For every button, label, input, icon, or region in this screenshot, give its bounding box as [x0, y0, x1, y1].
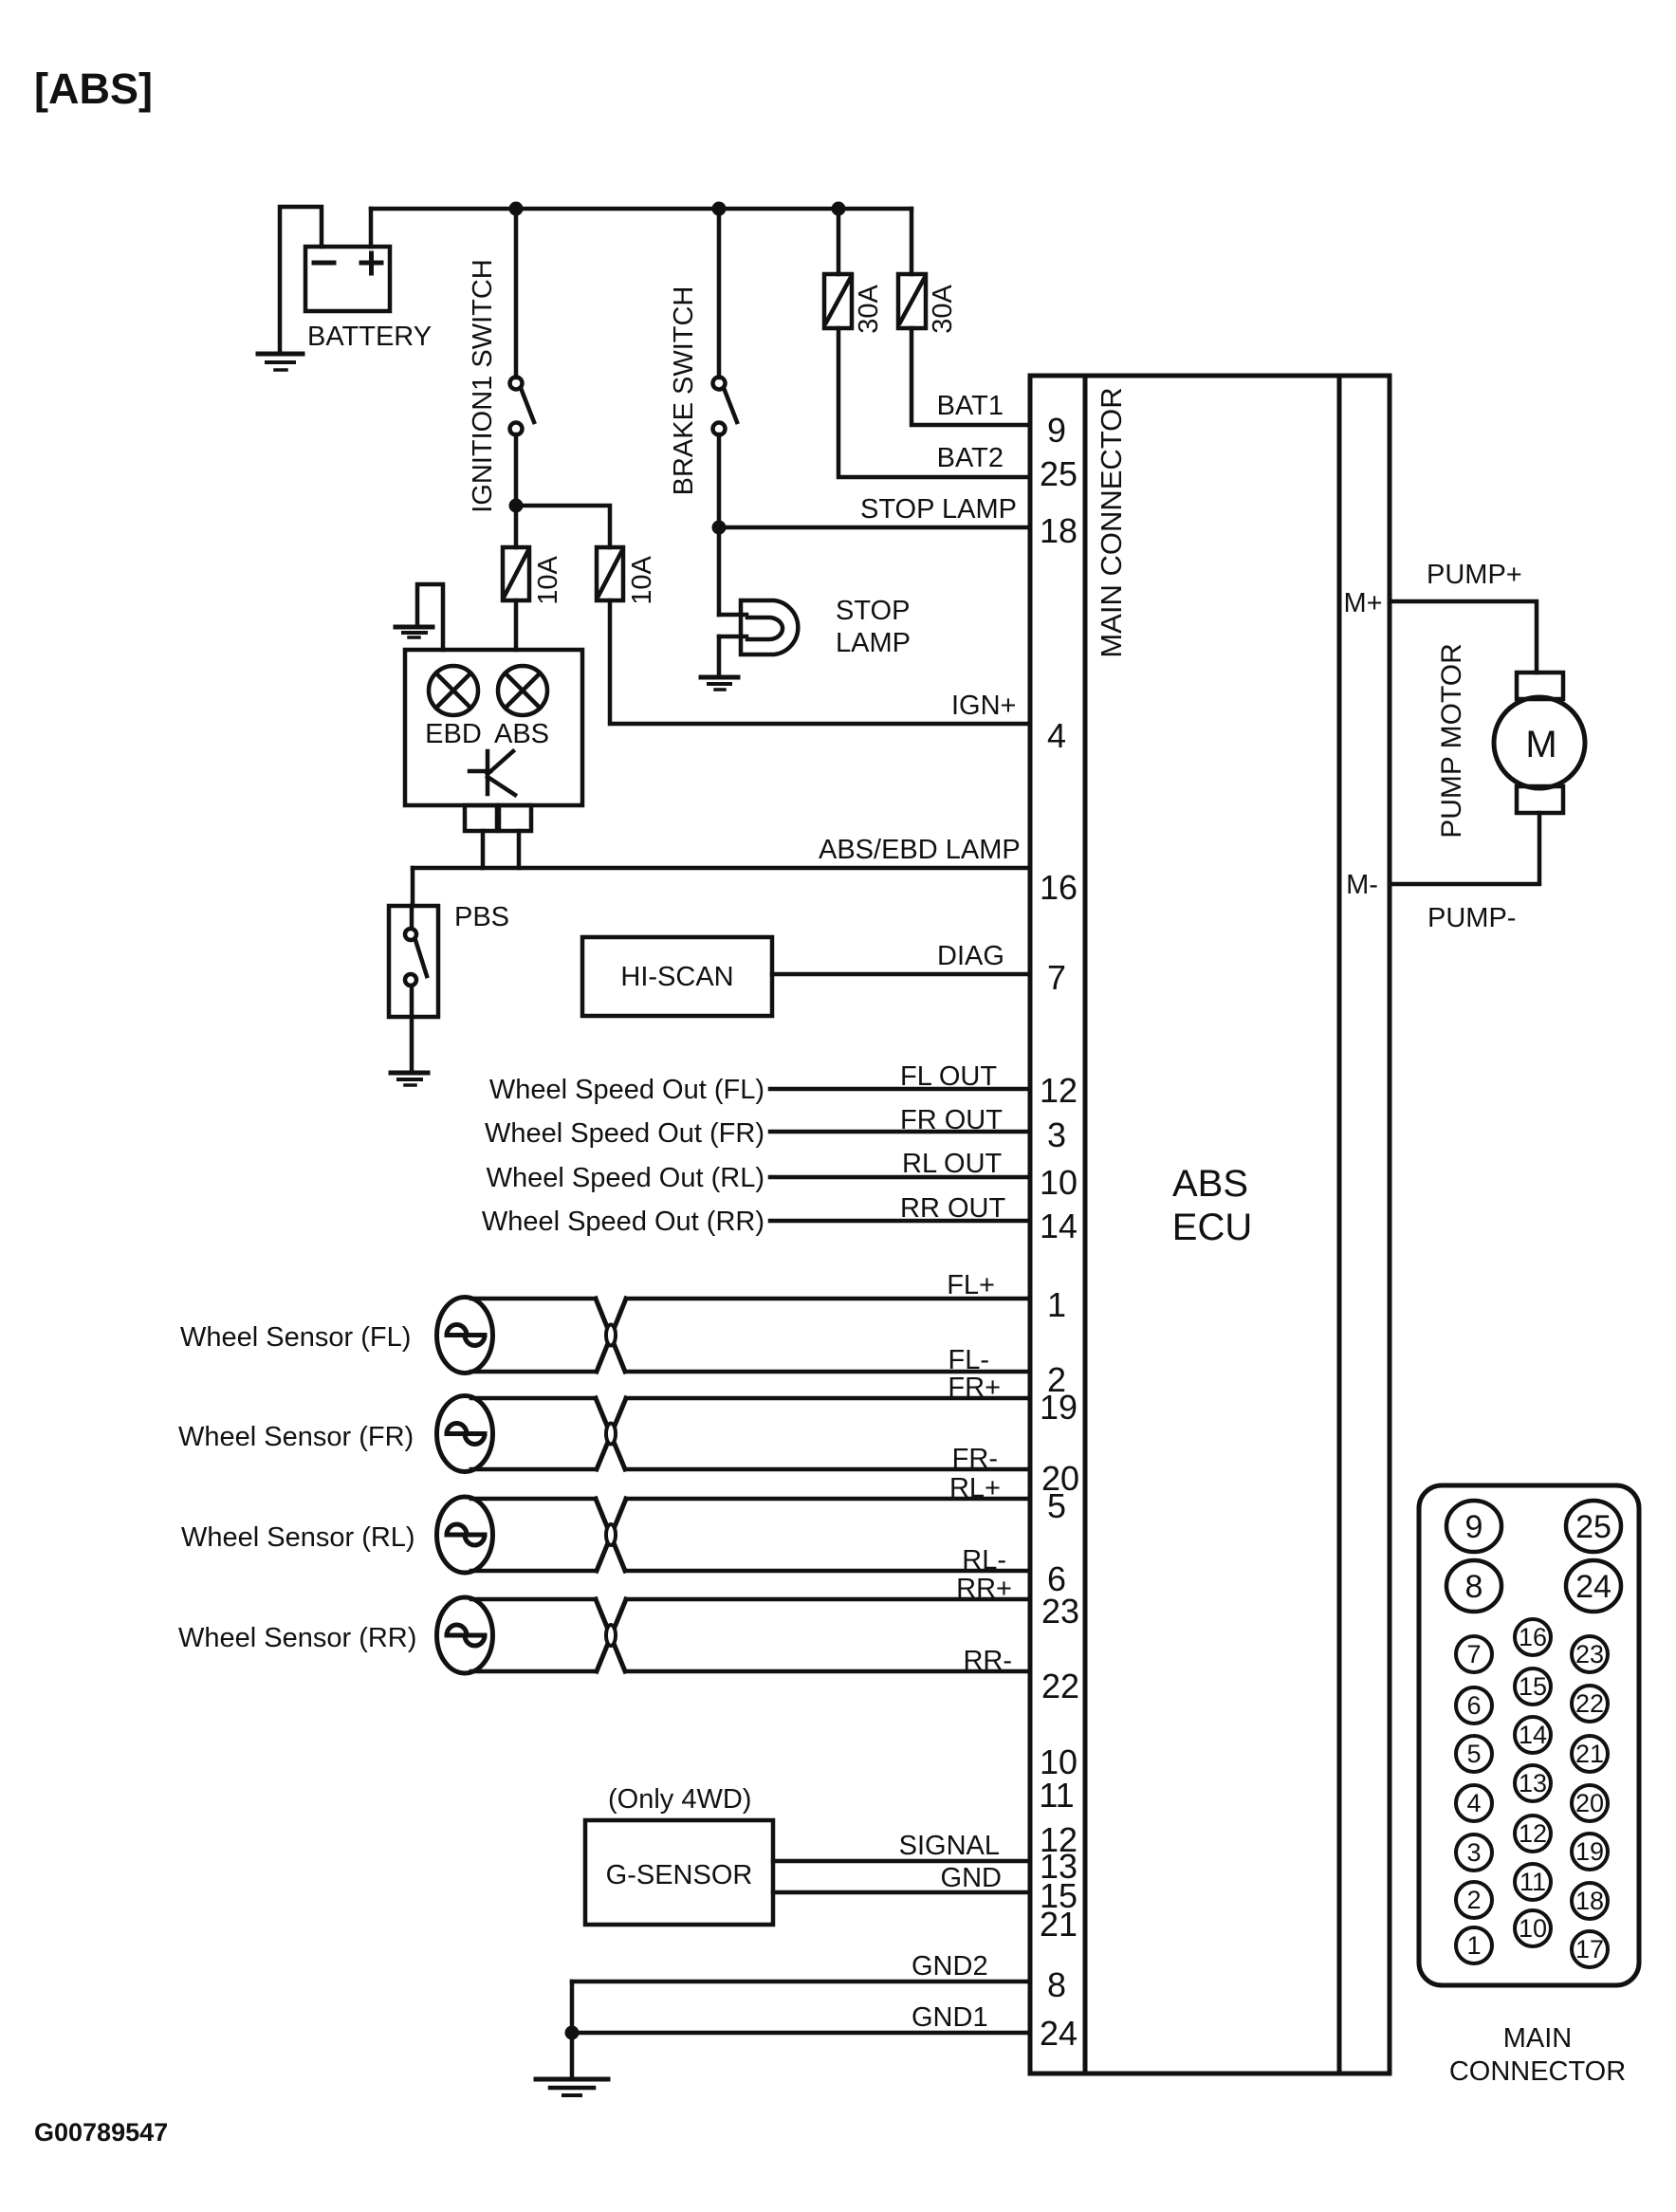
fuse F1 30A: [824, 274, 852, 328]
pin circle 17: [1572, 1931, 1608, 1967]
wire STOP LAMP to pin 18: [719, 525, 1030, 530]
svg-text:22: 22: [1575, 1689, 1604, 1718]
wire fuse F3 to lamp box: [514, 600, 519, 650]
pin circle 6: [1456, 1687, 1492, 1724]
svg-text:1: 1: [1466, 1931, 1481, 1960]
svg-text:5: 5: [1466, 1740, 1481, 1768]
pin circle 8: [1446, 1560, 1501, 1612]
ground chassis bottom: [536, 2079, 608, 2095]
svg-text:IGNITION1 SWITCH: IGNITION1 SWITCH: [468, 259, 498, 512]
svg-text:(Only 4WD): (Only 4WD): [608, 1784, 751, 1815]
svg-text:LAMP: LAMP: [836, 628, 911, 658]
wire FR OUT: [770, 1130, 1030, 1134]
sensor wheel RR: [437, 1597, 493, 1673]
svg-text:8: 8: [1465, 1569, 1483, 1605]
svg-text:IGN+: IGN+: [951, 691, 1017, 721]
ground battery: [258, 354, 303, 370]
svg-text:3: 3: [1466, 1838, 1481, 1867]
svg-text:2: 2: [1466, 1886, 1481, 1914]
wire to stop lamp bulb: [717, 527, 722, 615]
svg-text:16: 16: [1519, 1623, 1547, 1651]
pin circle 23: [1572, 1636, 1608, 1672]
svg-text:Wheel Sensor (RR): Wheel Sensor (RR): [178, 1623, 416, 1653]
wire top bus: [371, 207, 912, 212]
wire RL OUT: [770, 1175, 1030, 1180]
pin circle 18: [1572, 1883, 1608, 1919]
wire RR OUT: [770, 1219, 1030, 1224]
wire ignition drop: [514, 209, 519, 378]
ECU pin strip divider: [1083, 376, 1088, 2074]
twist RL: [596, 1499, 626, 1571]
svg-text:10A: 10A: [627, 556, 657, 605]
svg-text:25: 25: [1040, 454, 1077, 493]
svg-text:GND1: GND1: [912, 2002, 988, 2033]
svg-text:18: 18: [1040, 511, 1077, 550]
svg-text:RL+: RL+: [949, 1473, 1001, 1503]
pin circle 16: [1515, 1619, 1551, 1655]
svg-text:M: M: [1525, 724, 1556, 765]
svg-text:Wheel Speed Out (RL): Wheel Speed Out (RL): [487, 1163, 764, 1193]
wire lamp box ground jog: [417, 584, 443, 650]
pin circle 19: [1572, 1834, 1608, 1870]
svg-text:11: 11: [1039, 1776, 1074, 1815]
wire RL- to pin 6: [471, 1569, 596, 1574]
wire RR+ to pin 23: [471, 1597, 596, 1602]
wire fuse F2 to BAT1 pin 9: [912, 328, 1030, 425]
svg-text:STOP: STOP: [836, 596, 910, 626]
svg-text:FL-: FL-: [949, 1345, 990, 1375]
svg-text:BATTERY: BATTERY: [307, 322, 432, 352]
svg-text:FR+: FR+: [948, 1373, 1001, 1403]
pin circle 7: [1456, 1636, 1492, 1672]
svg-text:24: 24: [1040, 2014, 1077, 2053]
svg-text:17: 17: [1575, 1935, 1604, 1963]
svg-text:6: 6: [1466, 1691, 1481, 1720]
pin circle 22: [1572, 1686, 1608, 1722]
svg-text:1: 1: [1047, 1285, 1066, 1324]
ECU ABS outer box: [1030, 376, 1390, 2074]
svg-text:10: 10: [1519, 1914, 1547, 1943]
twist RR: [596, 1599, 626, 1671]
svg-text:RR-: RR-: [963, 1646, 1012, 1676]
ground PBS: [391, 1073, 428, 1085]
pin circle 21: [1572, 1736, 1608, 1772]
svg-text:21: 21: [1575, 1740, 1604, 1768]
box HI-SCAN: [582, 937, 772, 1016]
svg-text:STOP LAMP: STOP LAMP: [860, 494, 1017, 525]
wire lamp pin stubs: [483, 831, 519, 868]
pin circle 4: [1456, 1785, 1492, 1821]
svg-text:14: 14: [1519, 1721, 1547, 1749]
svg-text:M-: M-: [1346, 870, 1378, 900]
fuse F3 10A: [503, 547, 529, 600]
pin circle 24: [1566, 1560, 1621, 1612]
wire FR- to pin 20: [471, 1467, 596, 1472]
svg-text:Wheel Sensor (FL): Wheel Sensor (FL): [180, 1322, 411, 1353]
wire M+ to pump motor: [1390, 601, 1537, 673]
wire FL- to pin 2: [471, 1370, 596, 1374]
wire PBS to ground: [410, 986, 414, 1071]
node brake branch: [712, 202, 727, 216]
wire battery negative to ground: [280, 207, 322, 352]
svg-text:20: 20: [1575, 1789, 1604, 1817]
pin circle 12: [1515, 1816, 1551, 1852]
svg-text:MAIN CONNECTOR: MAIN CONNECTOR: [1095, 387, 1128, 657]
svg-text:Wheel Speed Out (FL): Wheel Speed Out (FL): [489, 1075, 764, 1105]
svg-text:RR OUT: RR OUT: [900, 1193, 1005, 1224]
svg-text:4: 4: [1047, 716, 1066, 755]
wire ground drop: [570, 1982, 575, 2077]
wire DIAG to pin 7: [772, 972, 1030, 977]
svg-text:Wheel Sensor (FR): Wheel Sensor (FR): [178, 1422, 414, 1452]
svg-text:ABS: ABS: [1172, 1163, 1248, 1205]
svg-text:HI-SCAN: HI-SCAN: [620, 962, 733, 992]
wire stop lamp to ground: [717, 636, 722, 675]
pin circle 5: [1456, 1736, 1492, 1772]
svg-text:PUMP MOTOR: PUMP MOTOR: [1436, 643, 1467, 839]
svg-text:4: 4: [1466, 1789, 1481, 1817]
svg-text:EBD: EBD: [425, 719, 482, 749]
svg-text:[ABS]: [ABS]: [34, 65, 153, 113]
svg-text:FL OUT: FL OUT: [900, 1061, 997, 1092]
connector view MAIN CONNECTOR box: [1419, 1485, 1639, 1985]
svg-text:MAIN: MAIN: [1503, 2023, 1573, 2054]
svg-text:3: 3: [1047, 1115, 1066, 1154]
fuse F2 30A: [898, 274, 926, 328]
svg-text:ECU: ECU: [1172, 1207, 1252, 1248]
svg-text:21: 21: [1040, 1905, 1077, 1944]
svg-text:DIAG: DIAG: [937, 941, 1004, 971]
pin circle 14: [1515, 1717, 1551, 1753]
motor M pump: [1494, 673, 1585, 813]
pin circle 10: [1515, 1910, 1551, 1946]
svg-text:FR-: FR-: [952, 1444, 998, 1474]
label MAIN CONNECTOR caption: [1449, 2023, 1626, 2087]
switch BRAKE SWITCH: [713, 378, 738, 435]
svg-text:PUMP+: PUMP+: [1427, 560, 1522, 590]
wire RR- to pin 22: [471, 1669, 596, 1674]
node ignition branch: [509, 202, 524, 216]
svg-text:GND: GND: [941, 1863, 1002, 1893]
svg-text:19: 19: [1575, 1837, 1604, 1866]
ground stop lamp: [701, 677, 738, 690]
pin circle 25: [1566, 1501, 1621, 1552]
node fuse 30A branch: [832, 202, 846, 216]
wire SIGNAL to pin 13: [773, 1859, 1030, 1864]
svg-text:7: 7: [1047, 958, 1066, 997]
wire RL+ to pin 5: [471, 1497, 596, 1502]
svg-text:25: 25: [1575, 1509, 1612, 1545]
wire GND1 to pin 24: [572, 2031, 1030, 2036]
wire ABS/EBD LAMP to pin 16: [413, 866, 1030, 871]
svg-text:ABS: ABS: [494, 719, 549, 749]
wire junction to fuse F3: [514, 506, 519, 547]
twist FR: [596, 1398, 626, 1469]
svg-text:CONNECTOR: CONNECTOR: [1449, 2056, 1626, 2087]
svg-text:Wheel Speed Out (FR): Wheel Speed Out (FR): [485, 1118, 764, 1149]
svg-text:10A: 10A: [533, 556, 563, 605]
svg-text:PBS: PBS: [454, 902, 509, 932]
wire FR+ to pin 19: [471, 1396, 596, 1401]
lamp EBD: [429, 666, 478, 715]
svg-text:FL+: FL+: [947, 1270, 995, 1300]
sensor wheel FR: [437, 1396, 493, 1472]
svg-text:RL-: RL-: [962, 1545, 1006, 1576]
svg-text:BRAKE SWITCH: BRAKE SWITCH: [669, 286, 699, 496]
node stop lamp wire: [712, 521, 727, 535]
svg-text:SIGNAL: SIGNAL: [899, 1831, 1000, 1861]
wire GND to pin 15: [773, 1890, 1030, 1895]
box G-SENSOR: [585, 1820, 773, 1925]
svg-text:ABS/EBD LAMP: ABS/EBD LAMP: [819, 835, 1021, 865]
twist FL: [596, 1299, 626, 1372]
svg-text:Wheel Sensor (RL): Wheel Sensor (RL): [181, 1522, 415, 1553]
svg-text:14: 14: [1040, 1207, 1077, 1245]
svg-text:30A: 30A: [854, 285, 884, 334]
svg-text:FR OUT: FR OUT: [900, 1105, 1003, 1135]
wire branch to second 10A fuse: [516, 506, 610, 547]
sensor wheel RL: [437, 1497, 493, 1573]
svg-text:22: 22: [1041, 1667, 1079, 1705]
wire down to PBS: [411, 868, 415, 906]
svg-text:13: 13: [1519, 1769, 1547, 1797]
svg-text:18: 18: [1575, 1887, 1604, 1915]
pin circle 15: [1515, 1668, 1551, 1705]
pin circle 1: [1456, 1927, 1492, 1963]
wire battery positive up: [369, 209, 374, 247]
svg-text:23: 23: [1575, 1640, 1604, 1668]
sensor wheel FL: [437, 1298, 493, 1373]
pin circle 11: [1515, 1864, 1551, 1900]
node GND junction: [565, 2026, 580, 2040]
box warning lamps EBD/ABS: [405, 650, 582, 805]
wire brake drop: [717, 209, 722, 378]
svg-text:10: 10: [1040, 1163, 1077, 1202]
pin circle 20: [1572, 1785, 1608, 1821]
wire FL+ to pin 1: [471, 1297, 596, 1301]
svg-text:23: 23: [1041, 1592, 1079, 1631]
symbol lamp check arrow: [470, 751, 515, 795]
wire brake switch to stop lamp node: [717, 434, 722, 527]
svg-text:15: 15: [1519, 1672, 1547, 1701]
label STOP LAMP bulb: [836, 596, 911, 658]
svg-text:19: 19: [1040, 1388, 1077, 1427]
svg-text:RR+: RR+: [956, 1574, 1012, 1604]
svg-text:7: 7: [1466, 1640, 1481, 1668]
connector pin box right under lamp box: [499, 805, 531, 831]
wire fuse F4 to IGN+: [610, 600, 1030, 724]
wire fuse F1 to BAT2 pin 25: [838, 328, 1030, 477]
wire top bus to fuse F2: [910, 209, 914, 274]
lamp STOP LAMP bulb: [719, 600, 798, 654]
lamp ABS: [498, 666, 547, 715]
label ABS ECU: [1172, 1163, 1252, 1248]
pin circle 2: [1456, 1882, 1492, 1918]
wire FL OUT: [770, 1087, 1030, 1092]
node fuse split: [509, 499, 524, 513]
svg-text:G-SENSOR: G-SENSOR: [606, 1860, 753, 1890]
svg-text:RL OUT: RL OUT: [902, 1149, 1003, 1179]
switch IGNITION1 SWITCH: [510, 378, 535, 435]
svg-text:11: 11: [1519, 1868, 1546, 1896]
pin circle 9: [1446, 1501, 1501, 1552]
connector pin box left under lamp box: [465, 805, 497, 831]
pin circle 13: [1515, 1765, 1551, 1801]
svg-text:8: 8: [1047, 1965, 1066, 2004]
wire ignition switch to junction: [514, 434, 519, 506]
svg-text:24: 24: [1575, 1569, 1612, 1605]
pin circle 3: [1456, 1834, 1492, 1871]
svg-text:M+: M+: [1343, 588, 1382, 618]
wire motor to M-: [1390, 813, 1539, 884]
svg-text:5: 5: [1047, 1486, 1066, 1525]
svg-text:16: 16: [1040, 868, 1077, 907]
switch PBS: [389, 906, 438, 1017]
battery B1: [305, 247, 390, 311]
svg-text:12: 12: [1040, 1071, 1077, 1110]
svg-text:G00789547: G00789547: [34, 2118, 168, 2147]
svg-text:9: 9: [1465, 1509, 1483, 1545]
svg-text:GND2: GND2: [912, 1951, 988, 1982]
ground lamp box: [396, 627, 433, 637]
svg-text:12: 12: [1519, 1819, 1547, 1848]
svg-text:Wheel Speed Out (RR): Wheel Speed Out (RR): [482, 1207, 764, 1237]
svg-text:BAT2: BAT2: [937, 443, 1004, 473]
svg-text:BAT1: BAT1: [937, 391, 1004, 421]
svg-text:30A: 30A: [928, 285, 958, 334]
wire GND2 to pin 8: [572, 1980, 1030, 1984]
svg-text:9: 9: [1047, 411, 1066, 450]
svg-text:PUMP-: PUMP-: [1427, 903, 1516, 933]
fuse F4 10A: [597, 547, 623, 600]
ECU right strip divider: [1337, 376, 1342, 2074]
wire top bus to fuse F1: [837, 209, 841, 274]
